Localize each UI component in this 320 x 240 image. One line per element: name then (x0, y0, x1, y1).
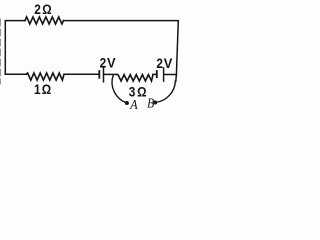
svg-text:A: A (129, 98, 138, 110)
svg-text:B: B (147, 97, 154, 110)
svg-text:V: V (107, 55, 116, 71)
svg-text:2: 2 (156, 55, 163, 71)
svg-text:1: 1 (34, 81, 41, 97)
svg-text:Ω: Ω (42, 81, 51, 97)
svg-text:2: 2 (34, 1, 41, 17)
svg-text:Ω: Ω (42, 1, 51, 17)
svg-text:Ω: Ω (137, 83, 146, 99)
svg-text:2: 2 (100, 55, 107, 71)
svg-text:V: V (164, 55, 173, 71)
